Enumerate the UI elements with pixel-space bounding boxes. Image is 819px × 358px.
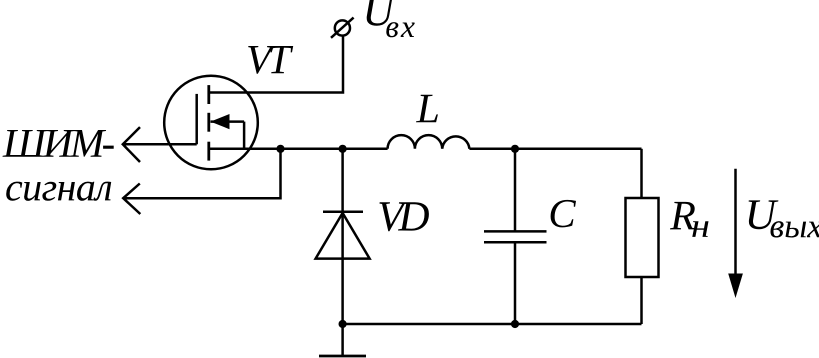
transistor VT channel segment middle — [207, 113, 210, 132]
node PWM-source junction — [276, 145, 284, 153]
wire capacitor bottom — [514, 242, 517, 324]
wire PWM to source node — [123, 149, 280, 198]
label Uvx-U — [366, 0, 396, 26]
diode VD cathode bar — [323, 211, 363, 214]
label VT — [248, 46, 293, 74]
label Rn-R — [670, 202, 695, 230]
capacitor C bottom plate — [484, 241, 547, 244]
wire body to source — [243, 122, 246, 149]
arrowhead PWM gate — [123, 127, 140, 162]
label L — [416, 95, 438, 123]
label Uvx-sub — [386, 22, 414, 37]
label Rn-sub — [692, 221, 708, 237]
terminal Uvx (input terminal circle with slash) — [331, 18, 354, 38]
resistor Rn body — [626, 198, 659, 277]
transistor VT body lead with arrow — [211, 120, 245, 123]
arrowhead PWM source — [123, 184, 140, 215]
wire load branch top — [640, 149, 643, 198]
wire drain to input terminal — [209, 35, 343, 92]
node capacitor bottom junction — [511, 320, 519, 328]
label signal — [6, 182, 111, 201]
label SHIM — [3, 130, 114, 157]
wire load branch bottom — [640, 277, 643, 324]
ground bar — [319, 355, 366, 358]
wire bottom rail — [343, 323, 642, 326]
wire diode branch vertical — [341, 149, 344, 356]
wire main rail right (inductor to load corner) — [469, 148, 641, 151]
transistor VT (MOSFET envelope circle) — [164, 76, 258, 170]
label Uvyh-sub — [771, 221, 819, 237]
wire main rail left (source to inductor) — [209, 148, 388, 151]
inductor L (three humps) — [388, 135, 470, 149]
node diode top junction — [339, 145, 347, 153]
transistor VT channel segment bottom — [207, 142, 210, 161]
node ground junction — [339, 320, 347, 328]
wire gate lead — [123, 143, 197, 146]
transistor VT channel segment top — [207, 85, 210, 104]
transistor VT gate bar — [195, 94, 198, 144]
diode VD triangle — [316, 213, 370, 259]
label VD — [379, 202, 429, 231]
arrow Uvyh output voltage — [728, 169, 743, 298]
label Uvyh-U — [749, 200, 779, 229]
node capacitor top junction — [511, 145, 519, 153]
capacitor C top plate — [484, 230, 547, 233]
label C — [551, 200, 576, 228]
wire capacitor top — [514, 149, 517, 232]
